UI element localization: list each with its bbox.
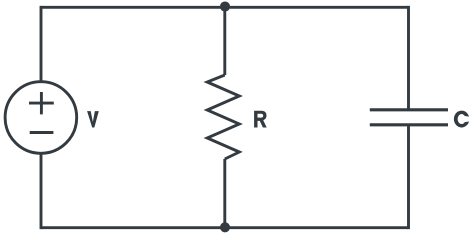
label R [254,111,267,128]
wire middle upper [223,7,226,75]
wire left lower [40,153,43,229]
wire top [41,6,409,9]
junction dot top [220,1,230,11]
wire right upper [407,6,410,110]
voltage source plus sign [29,92,54,114]
wire right lower [407,125,410,229]
wire middle lower [223,159,226,228]
label V [87,111,99,127]
capacitor C bottom plate [370,123,448,126]
label C [454,111,469,128]
wire bottom [41,226,409,229]
junction dot bottom [220,222,230,232]
voltage source V1 circle [5,82,77,154]
voltage source minus sign [30,131,54,134]
capacitor C top plate [370,108,448,111]
wire left upper [40,6,43,82]
resistor R zigzag [207,75,239,159]
